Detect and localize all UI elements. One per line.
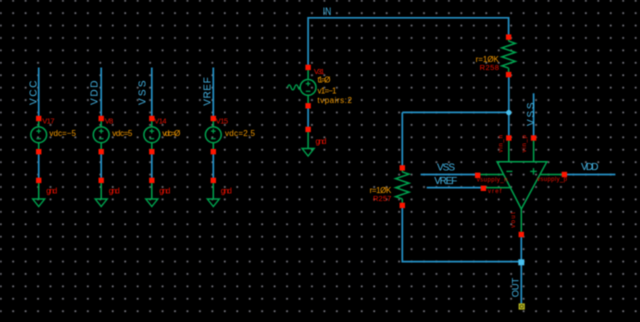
svg-text:t1=Ø: t1=Ø [318,75,331,84]
svg-text:r=1ØK: r=1ØK [370,186,392,195]
svg-text:VSS: VSS [437,163,455,174]
svg-text:v1=−1: v1=−1 [318,87,338,96]
svg-text:vdc=2.5: vdc=2.5 [225,129,256,138]
svg-text:vin_n: vin_n [498,135,504,152]
svg-text:gnd: gnd [109,187,120,196]
svg-text:vin_p: vin_p [522,134,528,152]
svg-text:vdc=Ø: vdc=Ø [162,129,180,138]
svg-text:V17: V17 [42,117,54,126]
svg-text:VREF: VREF [202,77,213,106]
svg-text:VDD: VDD [90,81,101,106]
svg-text:VDD: VDD [581,162,599,173]
svg-text:vdc=−5: vdc=−5 [49,129,76,138]
svg-text:VSS: VSS [138,80,149,105]
svg-text:IN: IN [323,6,332,18]
svg-text:gnd: gnd [159,187,170,196]
svg-text:VSS: VSS [526,102,537,126]
svg-text:r=1ØK: r=1ØK [476,55,500,64]
svg-text:vdc=5: vdc=5 [112,129,133,138]
svg-text:tvpairs:2: tvpairs:2 [317,96,352,105]
svg-text:gnd: gnd [221,187,232,196]
svg-text:VREF: VREF [434,176,457,187]
svg-text:R257: R257 [373,194,391,203]
svg-text:gnd: gnd [46,187,57,196]
svg-text:vsupply_p: vsupply_p [537,177,568,183]
svg-text:gnd: gnd [316,137,327,146]
svg-text:VCC: VCC [28,81,39,106]
svg-text:OUT: OUT [510,278,521,298]
svg-text:V14: V14 [154,117,166,126]
svg-text:V15: V15 [216,117,228,126]
svg-text:vref: vref [488,189,502,195]
svg-text:vsupply_n: vsupply_n [477,178,508,184]
svg-text:R258: R258 [480,63,499,72]
svg-text:V8: V8 [105,117,114,126]
